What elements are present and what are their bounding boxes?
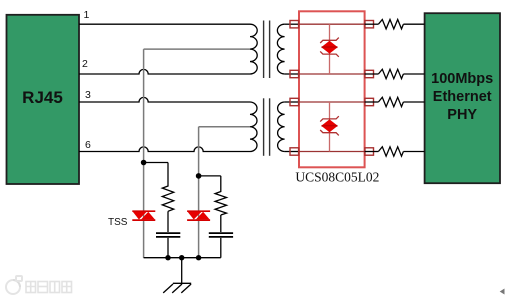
TSS label (108, 217, 128, 228)
connector J1 RJ45 block (7, 15, 80, 184)
wire net 3 (RJ45 pin3 to T2 primary top, hop over center-tap wire) (79, 97, 250, 102)
junction node C (165, 255, 170, 260)
ground (163, 258, 191, 293)
wire T1 primary center tap (144, 48, 250, 50)
wire node A to RC branch 1 (144, 162, 168, 164)
svg-text:6: 6 (85, 139, 91, 151)
TVS diode D2 vertical link (329, 102, 331, 152)
resistor R5 (vertical, branch 1) (162, 163, 173, 212)
wire T2 primary center tap (199, 126, 250, 128)
wire U1 right pin 3 to resistor R3 (365, 101, 379, 103)
wire T2 secondary top lead to U1 pin (285, 101, 299, 103)
transformer T1 primary winding (250, 24, 257, 74)
wire center-tap vertical 1 (gray, down to TSS group A) (143, 49, 145, 258)
wire resistor R3 to PHY (403, 101, 424, 103)
U1 internal net line 2 (299, 73, 366, 75)
wire U1 right pin 2 to resistor R2 (365, 73, 379, 75)
capacitor C2 (209, 233, 233, 237)
wire resistor R1 to PHY (403, 23, 424, 25)
wire R6 to C2 (220, 215, 222, 232)
cursor mark bottom right (decorative) (501, 289, 505, 293)
resistor R2 (378, 69, 403, 78)
TVS diode D2 symbol (320, 116, 339, 135)
wire net 2 (RJ45 pin2 to T1 primary bottom, hop over center-tap wire) (79, 69, 250, 74)
TSS arrester Z2 symbol (187, 211, 210, 220)
IC U2 100Mbps Ethernet PHY block (425, 13, 500, 183)
svg-text:PHY: PHY (447, 107, 477, 123)
junction node D (179, 255, 184, 260)
svg-text:TSS: TSS (108, 217, 128, 228)
svg-text:3: 3 (85, 89, 91, 101)
TSS arrester Z1 symbol (132, 211, 155, 220)
U1 internal net line 3 (299, 101, 366, 103)
resistor R4 (378, 147, 403, 156)
U1 pin square right 3 (365, 98, 374, 105)
capacitor C1 (156, 233, 180, 237)
transformer T1 secondary winding (277, 24, 284, 74)
wire U1 right pin 6 to resistor R4 (365, 151, 379, 153)
pin 3 label (85, 89, 91, 101)
U1 internal net line 1 (299, 23, 366, 25)
junction node B (center tap 2 branch) (196, 173, 202, 179)
wire node B to RC branch 2 (199, 175, 221, 177)
transformer T2 secondary winding (278, 102, 285, 152)
resistor R1 (378, 20, 403, 29)
U1 pin square left 2 (290, 70, 299, 77)
transformer T1 core (264, 21, 270, 79)
pin 6 label (85, 139, 91, 151)
resistor R3 (378, 97, 403, 106)
transformer T2 core (264, 98, 270, 156)
wire resistor R2 to PHY (403, 73, 424, 75)
U1 part label UCS08C05L02 (295, 170, 379, 185)
junction node E (196, 255, 201, 260)
U1 internal net line 6 (299, 151, 366, 153)
transformer T2 primary winding (250, 102, 257, 152)
resistor R6 (vertical, branch 2) (215, 176, 226, 215)
ground bus wire (144, 257, 221, 259)
wire T1 secondary bottom lead to U1 pin (285, 73, 299, 75)
IC U1 UCS08C05L02 body outline (299, 11, 365, 167)
TVS diode D1 symbol (320, 38, 339, 57)
wire T2 secondary bottom lead to U1 pin (285, 151, 299, 153)
watermark text (decorative) (26, 282, 72, 293)
U1 pin square left 3 (290, 98, 299, 105)
svg-text:2: 2 (82, 58, 88, 70)
U1 pin square left 1 (290, 21, 299, 28)
wire center-tap vertical 2 (gray, down to TSS group B) (198, 127, 200, 258)
svg-text:RJ45: RJ45 (22, 88, 63, 107)
pin 1 label (84, 9, 90, 21)
wire net 6 (RJ45 pin6 to T2 primary bottom, two hops) (79, 147, 250, 152)
svg-text:1: 1 (84, 9, 90, 21)
wire C1 to ground bus (167, 238, 169, 258)
TVS diode D1 vertical link (329, 24, 331, 74)
U1 pin square right 1 (365, 21, 374, 28)
svg-text:100Mbps: 100Mbps (431, 71, 493, 87)
watermark logo (decorative) (6, 276, 22, 294)
wire T1 secondary top lead to U1 pin (285, 23, 299, 25)
junction node A (center tap 1 branch) (141, 160, 147, 166)
pin 2 label (82, 58, 88, 70)
svg-text:Ethernet: Ethernet (433, 89, 492, 105)
wire R5 to C1 (167, 211, 169, 232)
U1 pin square left 6 (290, 148, 299, 155)
wire resistor R4 to PHY (403, 151, 424, 153)
wire net 1 (RJ45 pin1 to T1 primary top) (79, 23, 250, 25)
U1 pin square right 2 (365, 70, 374, 77)
svg-text:UCS08C05L02: UCS08C05L02 (295, 170, 379, 185)
wire U1 right pin 1 to resistor R1 (365, 23, 379, 25)
U1 pin square right 6 (365, 148, 374, 155)
wire C2 to ground bus (220, 238, 222, 258)
